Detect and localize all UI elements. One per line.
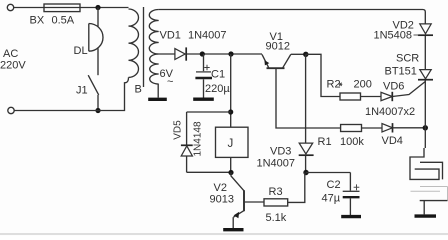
wire: VD5 bottom link <box>187 171 231 173</box>
svg-text:9012: 9012 <box>266 41 290 53</box>
transistor V2 9013 <box>210 173 265 229</box>
svg-text:VD6: VD6 <box>383 81 404 93</box>
ground: C2 <box>341 215 361 218</box>
label: AC 220V <box>0 48 26 72</box>
wire: down to relay J <box>230 54 232 127</box>
label: 6V~ <box>160 68 174 88</box>
svg-text:200: 200 <box>354 79 372 91</box>
diode VD6 <box>381 81 404 102</box>
svg-text:220V: 220V <box>0 60 26 72</box>
wire: top rail from secondary to right column <box>159 10 426 24</box>
svg-text:VD4: VD4 <box>382 135 403 147</box>
svg-text:5.1k: 5.1k <box>266 212 287 224</box>
svg-text:R3: R3 <box>269 186 283 198</box>
ground: V2 emitter <box>223 228 243 231</box>
svg-text:R1: R1 <box>318 136 332 148</box>
svg-text:C1: C1 <box>211 69 225 81</box>
transformer B core <box>143 7 145 87</box>
wire: node to R2 <box>306 54 340 96</box>
svg-text:220µ: 220µ <box>205 83 230 95</box>
wire: VD5 top link <box>187 111 231 113</box>
wire: primary bottom to AC bottom terminal <box>14 77 128 110</box>
terminal: AC input top <box>7 4 13 10</box>
svg-text:VD3: VD3 <box>270 146 291 158</box>
wire: VD2 to SCR <box>424 36 426 70</box>
wire: R1 to VD4 <box>362 127 383 129</box>
junction: VD3/R3/C2 node <box>303 170 308 175</box>
transformer B secondary winding upper <box>149 10 158 55</box>
heater element <box>410 148 448 214</box>
wire: R2 to VD6 <box>361 96 382 98</box>
wire: SCR cathode down through node to heater <box>424 81 426 149</box>
junction: V2 collector node <box>228 170 233 175</box>
transistor V1 9012 <box>262 31 291 68</box>
capacitor C1 220µ <box>195 54 230 98</box>
svg-text:DL: DL <box>74 45 88 57</box>
diode VD2 1N5408 <box>374 20 434 42</box>
wire: VD6 to SCR gate <box>392 82 425 97</box>
wire: node down to VD3 anode <box>305 54 307 143</box>
junction: bottom dot at DL branch <box>95 108 100 113</box>
junction: VD5 top <box>228 109 233 114</box>
junction: top dot at DL branch <box>95 5 100 10</box>
resistor R1 100k <box>318 125 365 149</box>
diode VD4 <box>382 123 403 147</box>
transformer B secondary winding lower <box>150 54 159 84</box>
svg-text:100k: 100k <box>340 136 364 148</box>
diode VD1 1N4007 <box>160 30 227 61</box>
svg-text:VD1: VD1 <box>160 30 181 42</box>
svg-text:0.5A: 0.5A <box>52 15 75 27</box>
svg-text:1N4148: 1N4148 <box>193 121 204 156</box>
svg-text:R2: R2 <box>327 79 341 91</box>
fuse BX 0.5A <box>30 4 81 27</box>
svg-text:C2: C2 <box>327 179 341 191</box>
svg-text:J: J <box>228 138 234 150</box>
wire: VD3 cathode to node <box>305 155 307 172</box>
switch J1 <box>76 75 99 110</box>
resistor R2 200 <box>327 79 372 101</box>
capacitor C2 47µ <box>322 173 360 216</box>
thyristor SCR BT151 <box>385 53 434 80</box>
junction: relay branch top <box>228 51 233 56</box>
wire: VD1 to V1 emitter <box>186 53 262 55</box>
wire: secondary tap to VD1 <box>159 53 175 55</box>
svg-text:9013: 9013 <box>210 194 234 206</box>
wire: V1 base down and right to R1 <box>276 69 341 128</box>
diode VD3 1N4007 <box>257 143 314 169</box>
svg-text:1N4007: 1N4007 <box>257 158 296 170</box>
svg-text:BX: BX <box>30 15 45 27</box>
wire: node to C2 <box>306 172 350 174</box>
svg-text:B: B <box>135 84 142 96</box>
svg-text:AC: AC <box>3 48 18 60</box>
wire: V1 collector to node <box>291 53 306 55</box>
junction: SCR cathode node <box>423 125 428 130</box>
svg-text:V2: V2 <box>214 182 227 194</box>
svg-text:~: ~ <box>167 76 173 88</box>
terminal: AC input bottom <box>8 107 14 113</box>
svg-text:BT151: BT151 <box>385 66 417 78</box>
svg-text:1N4007x2: 1N4007x2 <box>365 106 415 118</box>
transformer B primary winding <box>129 9 139 77</box>
diode VD5 1N4148 <box>173 112 204 172</box>
ground: transformer secondary <box>148 84 167 99</box>
ground: C1 <box>193 97 214 100</box>
wire: top AC line to transformer primary <box>14 7 129 9</box>
bell DL <box>74 8 103 76</box>
svg-text:1N5408: 1N5408 <box>374 30 413 42</box>
junction: rectifier output node <box>303 52 308 57</box>
resistor R3 5.1k <box>264 173 305 225</box>
junction: C1 top <box>200 51 205 56</box>
svg-text:47µ: 47µ <box>322 193 341 205</box>
relay coil J <box>216 127 249 172</box>
svg-text:VD5: VD5 <box>173 120 184 140</box>
wire: VD4 to right column <box>393 127 426 129</box>
svg-text:J1: J1 <box>76 85 88 97</box>
svg-text:1N4007: 1N4007 <box>188 30 227 42</box>
svg-text:SCR: SCR <box>396 53 419 65</box>
ground: heater <box>415 214 437 217</box>
